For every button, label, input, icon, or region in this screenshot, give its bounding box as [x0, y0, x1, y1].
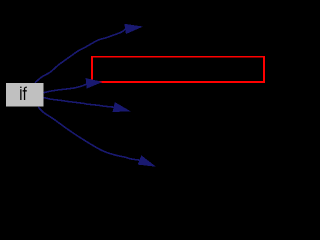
node2 box (truncated, red border)	[92, 57, 264, 82]
wire: edge if -> node2 (red truncated node)	[44, 84, 87, 93]
label if	[20, 87, 27, 100]
wire: edge if -> node3	[44, 98, 115, 108]
wire: edge if -> node1 (top)	[35, 29, 126, 83]
node if (root, gray filled)	[6, 83, 44, 107]
arrowhead edge 3	[113, 103, 129, 112]
arrowhead edge 2	[86, 79, 101, 88]
arrowhead edge 1	[125, 24, 141, 33]
arrowhead edge 4	[138, 156, 154, 166]
wire: edge if -> node4 (bottom)	[38, 107, 140, 160]
